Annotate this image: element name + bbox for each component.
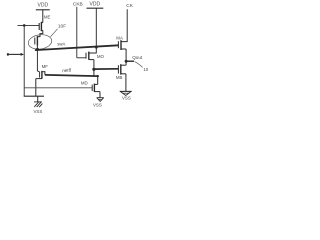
wire MB source down — [125, 74, 127, 92]
VDD rail bar (middle) — [87, 7, 104, 9]
wire VDD1 to ME source — [42, 10, 44, 23]
svg-text:net8: net8 — [62, 67, 72, 73]
svg-text:VDD: VDD — [38, 3, 49, 9]
svg-text:VDD: VDD — [90, 1, 101, 7]
node swA junction dot — [36, 48, 39, 51]
wire MF source down — [35, 79, 37, 97]
wire ME gate — [18, 24, 40, 26]
wire ME drain to 10F transistor — [37, 30, 42, 36]
ground (middle) — [97, 98, 104, 102]
transistor MF — [36, 64, 48, 79]
wire net8 to MB gate (thick) — [94, 68, 119, 70]
wire CK to MA source — [121, 9, 127, 41]
transistor MD — [81, 80, 100, 92]
wire Qout stub — [126, 60, 134, 62]
svg-text:ME: ME — [44, 14, 51, 19]
transistor 10F (circled) — [35, 36, 38, 49]
leader to label 10 — [135, 62, 143, 68]
callout ellipse 10F — [27, 33, 52, 50]
wire MD gate line — [24, 87, 92, 89]
svg-text:10: 10 — [143, 67, 148, 72]
wire node swA (thick) — [35, 45, 118, 50]
svg-text:Qout: Qout — [132, 55, 143, 60]
svg-text:10F: 10F — [58, 23, 66, 29]
wire ground stem left — [37, 96, 39, 102]
wire MA drain to Qout node — [125, 49, 127, 65]
VDD rail bar (left) — [36, 9, 50, 11]
svg-text:CK: CK — [126, 3, 133, 9]
wire MO drain down — [93, 60, 95, 70]
svg-text:VSS: VSS — [34, 109, 43, 114]
transistor MO — [86, 52, 105, 60]
junction dot VDD2/swA — [95, 46, 98, 49]
wire input vertical — [23, 25, 25, 96]
node net8 junction dot — [92, 68, 95, 71]
ground (left, hatched) — [34, 102, 42, 107]
svg-text:MF: MF — [42, 64, 49, 69]
wire CKB to MO gate — [77, 57, 86, 59]
wire MD drain jog up to net8 — [94, 69, 98, 84]
svg-text:MB: MB — [116, 75, 123, 80]
transistor MB — [116, 64, 126, 80]
wire node net8 (thick) — [45, 75, 98, 76]
wire VDD2 stem — [89, 8, 97, 53]
svg-text:MA: MA — [116, 35, 123, 40]
transistor MA — [116, 35, 126, 50]
transistor ME — [39, 14, 50, 31]
svg-text:swA: swA — [57, 42, 65, 47]
wire MD source down — [99, 92, 101, 98]
wire bottom-left horizontal — [24, 95, 44, 97]
node Qout junction dot — [125, 60, 128, 63]
svg-text:VSS: VSS — [122, 96, 131, 101]
svg-text:VSS: VSS — [93, 103, 102, 108]
ground (right) — [120, 91, 132, 95]
svg-text:CKB: CKB — [73, 1, 83, 7]
svg-text:MD: MD — [81, 80, 88, 85]
input arrow — [7, 53, 24, 56]
wire swA to MF gate — [37, 49, 39, 77]
leader to 10F label — [51, 29, 58, 37]
wire CKB vertical — [76, 7, 78, 58]
node junction on ME gate — [23, 24, 26, 27]
svg-text:MO: MO — [97, 54, 105, 59]
